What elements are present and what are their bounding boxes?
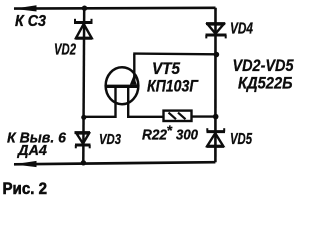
- diode VD4: [206, 24, 227, 39]
- wire left rail (VD2/VD3 string): [82, 8, 85, 163]
- svg-text:*: *: [167, 122, 173, 138]
- svg-text:300: 300: [176, 127, 199, 144]
- svg-text:VD4: VD4: [230, 21, 253, 38]
- arrow to C3: [14, 5, 37, 11]
- svg-text:Рис. 2: Рис. 2: [3, 180, 48, 198]
- wire gate to right rail: [134, 52, 216, 55]
- svg-text:R22: R22: [142, 126, 168, 143]
- svg-text:VD2-VD5: VD2-VD5: [233, 56, 294, 75]
- gate arrow of VT5: [130, 76, 137, 85]
- svg-text:К С3: К С3: [15, 13, 46, 30]
- svg-text:VT5: VT5: [152, 60, 181, 78]
- node: junction bottom rail / VD3: [81, 160, 86, 165]
- wire resistor to right rail: [192, 115, 216, 117]
- wire right rail (VD4/VD5 string): [214, 8, 217, 163]
- diode VD2: [74, 19, 93, 39]
- svg-text:VD3: VD3: [99, 132, 121, 148]
- arrow to pin 6 DA4: [14, 161, 37, 167]
- wire bottom rail with left arrow: [14, 162, 215, 164]
- transistor VT5: [84, 54, 164, 117]
- diode VD3: [75, 133, 91, 149]
- svg-text:КД522Б: КД522Б: [238, 74, 293, 93]
- svg-text:ДА4: ДА4: [16, 142, 48, 159]
- node: junction top rail / VD2: [82, 6, 87, 11]
- svg-text:VD5: VD5: [230, 131, 253, 148]
- node: junction resistor wire / right rail: [213, 114, 219, 120]
- svg-text:КП103Г: КП103Г: [147, 78, 199, 96]
- resistor R22: [164, 111, 192, 121]
- node: junction gate wire / right rail: [214, 52, 220, 58]
- node: junction source wire / left rail: [81, 115, 86, 120]
- wire top rail with left arrow: [14, 7, 216, 10]
- diode VD5: [206, 128, 225, 146]
- svg-text:VD2: VD2: [54, 42, 76, 59]
